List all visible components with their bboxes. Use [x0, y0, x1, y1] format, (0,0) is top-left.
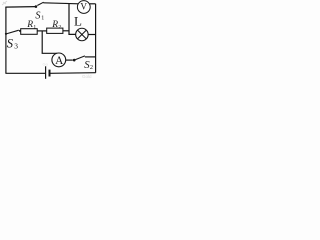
svg-text:S: S: [35, 10, 40, 21]
svg-text:Go: Go: [43, 62, 49, 67]
wire: left vertical: [5, 7, 7, 73]
svg-text:S: S: [7, 36, 14, 50]
battery short thick plate: [49, 70, 51, 77]
svg-text:3: 3: [14, 42, 18, 51]
wire: top left segment: [5, 6, 35, 9]
ammeter A circle: [52, 53, 66, 67]
wire: junction drop from top wire to lamp row: [69, 3, 76, 34]
svg-text:A: A: [55, 55, 64, 67]
svg-text:V: V: [80, 2, 87, 12]
wire: ammeter right to S2 contact: [66, 59, 73, 61]
wire: R2 right to junction: [63, 30, 69, 32]
switch S2 blade: [75, 56, 85, 60]
wire: lamp right to right vertical: [88, 34, 96, 36]
resistor R1 box: [21, 29, 38, 35]
voltmeter V circle: [77, 1, 90, 14]
wire: T drop down to ammeter branch: [42, 31, 57, 53]
svg-text:Gold: Gold: [82, 74, 92, 79]
wire: V to right corner: [90, 3, 96, 5]
battery long plate: [45, 66, 47, 79]
switch S3 pivot dot: [5, 33, 7, 35]
svg-text:2: 2: [90, 64, 93, 71]
wire: R1 right to R2 left through T junction: [37, 30, 47, 32]
svg-text:L: L: [74, 14, 82, 29]
switch S1 blade: [37, 2, 43, 5]
lamp X cross: [78, 30, 87, 39]
resistor R2 box: [47, 28, 63, 33]
wire: top right segment: [43, 3, 78, 4]
svg-text:R: R: [26, 20, 33, 30]
svg-text:1: 1: [33, 24, 36, 30]
switch S2 contact dot: [73, 59, 76, 62]
svg-text:2: 2: [58, 24, 61, 30]
wire: S2 right to right vertical: [85, 56, 96, 58]
scan smudge top-left: [2, 1, 7, 5]
wire: right vertical: [95, 4, 97, 73]
svg-text:R: R: [51, 20, 58, 30]
switch S3 contact dot: [19, 30, 21, 32]
wire: bottom right segment: [50, 72, 95, 75]
switch S1 contact dot: [35, 5, 38, 8]
lamp L circle: [76, 28, 89, 41]
switch S3 blade: [6, 30, 19, 34]
svg-text:1: 1: [41, 15, 44, 21]
wire: bottom left segment: [5, 72, 45, 74]
